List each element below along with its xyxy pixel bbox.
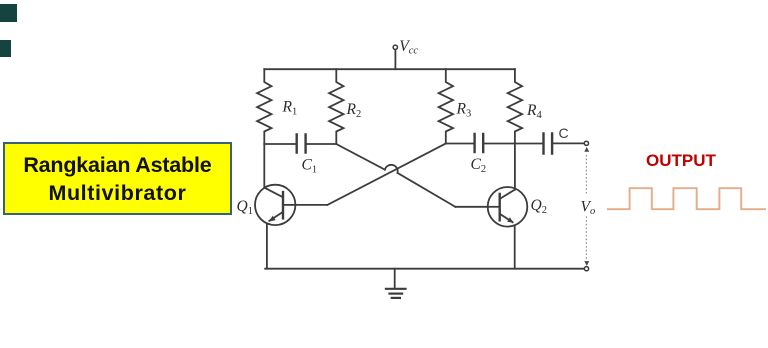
wire C2 to R4 — [484, 143, 515, 145]
Q2 emitter arrowhead — [507, 217, 513, 223]
transistor Q1 — [255, 185, 295, 225]
svg-text:R2: R2 — [346, 101, 362, 120]
resistor R1 — [257, 69, 271, 144]
svg-text:R1: R1 — [282, 99, 298, 118]
wire R4 to C — [515, 143, 542, 145]
wire R1 to C1 — [264, 143, 295, 145]
wire top rail — [264, 68, 515, 70]
resistor R3 — [439, 69, 453, 143]
OUTPUT label — [646, 152, 716, 169]
wire R4 column to Q2 collector — [514, 144, 516, 190]
transistor Q2 — [488, 187, 528, 227]
svg-text:Q1: Q1 — [237, 198, 253, 217]
wire diagonal Q1 base to R3 node — [327, 144, 445, 205]
arrowhead up at output top — [584, 147, 589, 152]
wire Q2 base bend to Q2 — [455, 206, 487, 208]
svg-text:C1: C1 — [302, 157, 318, 176]
wire left column to Q1 collector — [263, 144, 265, 188]
title box: Rangkaian Astable Multivibrator — [3, 142, 232, 215]
svg-text:R3: R3 — [456, 101, 472, 120]
svg-text:C: C — [559, 125, 569, 141]
svg-text:R4: R4 — [526, 102, 542, 121]
wire Q2 emitter down — [514, 226, 516, 268]
node output bottom terminal — [584, 267, 588, 271]
Vcc terminal circle — [393, 45, 397, 49]
wire hop over crossing — [385, 165, 398, 173]
capacitor C2 — [475, 134, 484, 152]
ground — [386, 269, 406, 298]
wire diagonal R2 node to crossing — [336, 144, 385, 170]
svg-text:Q2: Q2 — [531, 197, 547, 216]
svg-text:Vcc: Vcc — [399, 38, 418, 57]
waveform square wave — [608, 188, 765, 209]
wire C to output node — [553, 142, 584, 144]
svg-text:C2: C2 — [471, 156, 487, 175]
arrowhead down at output bottom — [584, 261, 589, 266]
wire C1 to R2 — [307, 143, 337, 145]
wire Q1 base to diagonal bend — [295, 204, 327, 206]
wire diagonal crossing to Q2 base bend — [398, 173, 456, 207]
capacitor C1 — [297, 135, 306, 153]
dotted measure line Vo — [585, 156, 587, 259]
svg-text:Vo: Vo — [581, 199, 596, 218]
wire R3 to C2 — [446, 143, 474, 145]
hidden watermark square left edge — [0, 40, 11, 57]
Q1 emitter arrowhead — [268, 216, 275, 222]
wire Vcc stub — [394, 50, 396, 70]
node output top terminal — [584, 141, 588, 145]
capacitor C — [544, 134, 553, 154]
wire Q1 emitter down — [266, 224, 268, 269]
resistor R4 — [508, 69, 522, 143]
resistor R2 — [329, 69, 343, 144]
wire bottom rail — [265, 268, 584, 270]
hidden watermark square top-left — [0, 4, 17, 22]
